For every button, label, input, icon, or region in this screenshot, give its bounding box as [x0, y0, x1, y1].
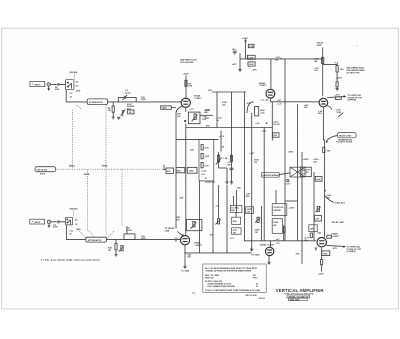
V495B plate lead	[270, 241, 272, 247]
right rail from V496A down	[323, 107, 324, 238]
to delay note + arrow	[165, 227, 176, 232]
svg-text:RANGE: RANGE	[273, 209, 281, 212]
svg-text:TERMINATION: TERMINATION	[338, 138, 353, 141]
svg-text:10K: 10K	[327, 150, 331, 152]
horizontal bus y127.5	[186, 127, 272, 129]
node J2 grid	[115, 239, 116, 240]
cathode curve to left rail	[176, 106, 182, 113]
svg-text:2W: 2W	[314, 61, 317, 63]
probe adj label	[127, 104, 135, 110]
svg-text:1.2K: 1.2K	[313, 161, 318, 163]
rail x302	[301, 152, 303, 264]
svg-text:12K: 12K	[317, 233, 321, 235]
ground below pot	[225, 168, 228, 184]
wire attenuator to grid V494A	[108, 101, 181, 103]
ground branch	[336, 88, 339, 90]
svg-text:18K: 18K	[310, 228, 314, 230]
ground network	[117, 117, 120, 119]
svg-text:AC: AC	[75, 218, 78, 221]
gain adj leader curve	[325, 196, 334, 203]
wire J1 to C1	[50, 83, 56, 85]
node grid junction	[113, 101, 114, 102]
svg-text:100K: 100K	[205, 110, 210, 112]
pot x258	[255, 217, 260, 222]
svg-text:+225V: +225V	[242, 38, 249, 40]
resistor box R16 100K	[187, 167, 197, 173]
volts/cm switch box	[35, 167, 56, 172]
DC BAL box R7	[161, 106, 172, 110]
heater crossed box	[290, 167, 305, 177]
trimmer pot lower	[119, 246, 124, 252]
capacitor C1	[58, 83, 66, 86]
rail x244.5	[244, 92, 246, 241]
resistor box 120K lower	[248, 62, 255, 66]
ground J2	[48, 224, 50, 228]
branch corner arrow	[335, 62, 338, 65]
V495B cathode	[268, 256, 270, 262]
svg-text:DELAY LINE: DELAY LINE	[339, 134, 352, 137]
resistor 100K vertical box	[255, 107, 266, 116]
svg-text:AT TEST PTS.: AT TEST PTS.	[346, 72, 360, 75]
svg-text:1M: 1M	[129, 112, 132, 114]
rail x272.3 upper	[271, 102, 273, 141]
third box lower center	[232, 228, 241, 235]
switch SW8B box	[65, 217, 72, 225]
svg-text:ATTENUATOR: ATTENUATOR	[89, 101, 103, 104]
capacitor C8	[232, 49, 237, 55]
box lower right 2	[272, 219, 282, 234]
svg-text:SW8B: SW8B	[102, 165, 108, 167]
bottom bus y253	[185, 252, 252, 254]
R30 labels	[314, 58, 319, 72]
ground arrow x251.7	[250, 249, 253, 251]
rail x297.5	[297, 104, 299, 241]
svg-text:12K: 12K	[304, 240, 308, 242]
cathode arc 47K	[247, 102, 254, 113]
resistor box 120K upper	[247, 55, 255, 59]
svg-text:10K: 10K	[340, 69, 344, 71]
rail below tall box right	[212, 181, 214, 253]
network labels lower	[126, 227, 133, 231]
resistor to gnd branch	[336, 72, 338, 88]
delay line feed rail	[322, 47, 324, 95]
V496A lower label	[318, 111, 323, 115]
attenuator B box	[86, 237, 107, 242]
notes text	[205, 267, 261, 292]
svg-text:100K: 100K	[273, 222, 278, 224]
delay line top label	[317, 41, 324, 46]
heater wiring label box	[261, 172, 279, 177]
svg-text:120K: 120K	[204, 156, 209, 158]
+225V top feed arrow	[245, 40, 247, 59]
wire SW8A down to attenuator	[66, 90, 87, 102]
rail x236.6 mid	[236, 190, 238, 212]
svg-text:1W: 1W	[255, 232, 258, 234]
output arrow upper	[327, 96, 345, 98]
compensation trimmer C3 bypass	[118, 95, 136, 102]
svg-text:27K: 27K	[315, 218, 319, 220]
svg-text:+225V: +225V	[183, 73, 190, 75]
svg-text:GND: GND	[76, 91, 81, 93]
heater connect wire	[279, 173, 290, 175]
dashed gang x106	[105, 105, 107, 237]
rail x285	[284, 59, 286, 241]
wire J2 to C11	[51, 221, 57, 223]
svg-text:AC: AC	[76, 80, 79, 83]
title box 1	[287, 295, 310, 298]
tube V495A	[266, 89, 275, 98]
labels right mid	[313, 159, 320, 164]
ground at J1	[48, 86, 50, 90]
resistor box 47K low	[273, 133, 279, 137]
resistor R30 on feed	[322, 57, 324, 63]
gain adj label	[202, 109, 209, 121]
V494A cathode lead	[185, 107, 187, 112]
svg-text:47K: 47K	[296, 253, 300, 256]
svg-text:310-52: 310-52	[258, 298, 265, 300]
svg-text:GND: GND	[76, 229, 81, 231]
svg-text:470K: 470K	[288, 151, 293, 154]
rail x221 lower	[220, 131, 222, 152]
V496B label	[331, 233, 340, 238]
resistor on x230.5	[230, 155, 232, 161]
svg-text:TYPE 310 MOD 50B OSCILLOSCOPE: TYPE 310 MOD 50B OSCILLOSCOPE	[41, 258, 100, 262]
svg-text:47K: 47K	[253, 69, 257, 72]
capacitor C11	[58, 220, 66, 223]
svg-text:47K: 47K	[233, 220, 237, 223]
svg-text:INPUT: INPUT	[35, 84, 42, 86]
svg-text:LINE: LINE	[317, 45, 322, 47]
svg-text:4W: 4W	[275, 58, 278, 61]
C1 value label	[55, 87, 60, 91]
svg-text:FOR VALUES: FOR VALUES	[180, 61, 194, 64]
ground x230.5	[230, 182, 233, 184]
R4 value label	[108, 107, 111, 112]
svg-text:2W: 2W	[273, 225, 276, 227]
horizontal bus y139.4	[176, 138, 219, 140]
svg-text:PIN CONNECTIONS SHOWN: PIN CONNECTIONS SHOWN	[207, 286, 235, 288]
svg-text:4.7K: 4.7K	[233, 229, 238, 232]
svg-text:120K: 120K	[249, 64, 254, 66]
SW8A contacts	[67, 82, 71, 89]
100K below output	[322, 251, 330, 256]
svg-text:2.2K: 2.2K	[249, 46, 254, 48]
heater pilot circle	[287, 180, 289, 182]
delay line callout box	[338, 133, 357, 142]
junction dot right rail	[324, 190, 326, 192]
tall network box	[199, 140, 214, 181]
resistor 10K branch	[336, 66, 344, 72]
svg-text:Triggering: Triggering	[205, 181, 216, 184]
box above V494B	[187, 220, 202, 231]
resistor 1M lower	[115, 240, 117, 255]
diag arrow lower	[177, 231, 183, 236]
wire attenuator B to V494B	[107, 239, 182, 241]
grid stopper label 7.5K	[141, 97, 146, 101]
SW8B contacts	[67, 219, 71, 224]
47K labels left lower	[176, 216, 180, 221]
lower center box 2	[232, 217, 241, 224]
svg-text:1.2K: 1.2K	[223, 158, 228, 160]
svg-text:GAIN ADJ.: GAIN ADJ.	[335, 203, 346, 205]
cathode pot arrow	[338, 113, 343, 117]
resistor below output	[321, 248, 323, 272]
output tube V496A	[319, 98, 328, 107]
svg-text:4.5-25: 4.5-25	[125, 92, 132, 95]
1M lower labels	[108, 247, 113, 252]
dashed gang x72.5	[72, 110, 74, 170]
note text top	[180, 59, 197, 64]
box stack right 2	[309, 225, 317, 232]
svg-text:100K: 100K	[162, 108, 167, 110]
wire SW8B to attenuator B	[66, 225, 86, 240]
svg-text:LINE: LINE	[165, 230, 170, 232]
ground 1M lower	[115, 255, 118, 257]
SW8B labels	[75, 218, 81, 230]
V496A bias labels	[304, 104, 309, 109]
connector circle	[47, 83, 50, 86]
svg-text:+1.4V: +1.4V	[201, 170, 207, 173]
input connector J1 box	[30, 81, 45, 86]
network box lower	[124, 226, 135, 239]
CRT note lower	[333, 245, 362, 253]
svg-text:DELAY LINE: DELAY LINE	[332, 221, 345, 224]
wire labels +4.7	[277, 99, 282, 106]
svg-text:4.5-25: 4.5-25	[126, 229, 133, 232]
svg-text:+1.5 +65: +1.5 +65	[260, 99, 269, 101]
CRT note upper	[334, 93, 363, 101]
svg-text:+4.7V: +4.7V	[334, 93, 340, 96]
svg-text:1/2W: 1/2W	[336, 112, 341, 114]
junction tick at bus	[280, 58, 282, 59]
svg-text:47K: 47K	[205, 117, 209, 120]
rail x227 lower	[226, 185, 228, 253]
svg-text:600V: 600V	[55, 89, 60, 91]
svg-text:1W: 1W	[254, 162, 257, 164]
plate resistor label	[188, 83, 192, 87]
svg-text:6.3V: 6.3V	[286, 184, 291, 186]
svg-text:VERTICAL AMPLIFIER: VERTICAL AMPLIFIER	[276, 288, 325, 293]
resistor R22 2.2K	[248, 44, 254, 48]
box 27K right	[314, 215, 321, 221]
svg-text:276 1R: 276 1R	[273, 124, 280, 126]
svg-text:AC: AC	[306, 171, 309, 174]
svg-text:12K: 12K	[188, 86, 192, 88]
svg-text:22K: 22K	[180, 198, 184, 200]
tall box entry label	[201, 170, 208, 180]
rail x276 short	[275, 190, 277, 204]
svg-text:REV. B 4-58: REV. B 4-58	[245, 294, 257, 297]
svg-text:47K: 47K	[273, 134, 277, 137]
C11 labels	[53, 225, 58, 229]
gang dashed bus	[56, 168, 162, 170]
dashed diag to atten B	[79, 230, 94, 239]
svg-text:47K: 47K	[247, 102, 251, 105]
feedback box left small	[166, 168, 174, 173]
svg-text:4.7K: 4.7K	[204, 146, 209, 149]
V495A label	[259, 82, 268, 87]
box 100K right	[315, 176, 322, 181]
svg-text:TO V494: TO V494	[251, 254, 260, 257]
svg-text:SW8B: SW8B	[84, 174, 90, 176]
divider leg to ground	[239, 53, 241, 69]
label +1.05V	[217, 117, 223, 121]
left long rail	[175, 113, 177, 228]
rev text below notes	[245, 294, 265, 300]
svg-text:1/2W: 1/2W	[141, 99, 146, 101]
small box under +4.7V	[335, 97, 341, 100]
svg-text:DC: DC	[75, 224, 78, 226]
lower center box DC shift	[230, 205, 242, 212]
svg-text:+100V: +100V	[318, 274, 325, 276]
resistor right stack	[310, 233, 312, 238]
dashed diag atten B right	[107, 230, 115, 238]
switch SW8A box	[66, 80, 74, 90]
tall box entry R19	[201, 162, 209, 167]
cathode labels lower	[187, 254, 192, 258]
lower pot mid	[215, 219, 220, 225]
resistor R5 1M box	[128, 110, 134, 114]
svg-text:PLATE LOAD 47K: PLATE LOAD 47K	[205, 280, 223, 283]
label +45V	[222, 101, 228, 106]
output arrow lower	[326, 245, 345, 247]
svg-text:1.2K: 1.2K	[190, 150, 195, 152]
delay callout arrow	[326, 135, 338, 142]
grid side labels	[175, 238, 178, 243]
cathode node dot	[184, 120, 186, 122]
svg-text:POSITION: POSITION	[273, 207, 283, 209]
svg-text:+100V: +100V	[288, 208, 295, 210]
svg-text:(SW 8A): (SW 8A)	[69, 71, 77, 74]
attenuator A box	[87, 99, 107, 105]
wire gain box to rail	[200, 114, 213, 116]
dashed gang diag upper	[76, 105, 82, 109]
gain network box	[188, 112, 200, 124]
dashed gang x122	[121, 169, 123, 226]
trimmer C4	[121, 109, 126, 116]
svg-text:ATTENUATOR: ATTENUATOR	[88, 239, 102, 242]
svg-text:22K: 22K	[247, 212, 251, 214]
svg-text:1.4K: 1.4K	[204, 164, 209, 167]
rail x230.5 with ground	[231, 92, 233, 182]
svg-text:1W: 1W	[233, 232, 236, 234]
junction dot	[266, 122, 268, 124]
screen bus y58.9	[240, 58, 323, 60]
svg-text:1M: 1M	[108, 110, 111, 112]
svg-text:TO ALL COMPONENTS AND TUBE TER: TO ALL COMPONENTS AND TUBE TERMINALS OF …	[205, 289, 261, 292]
left rail label	[177, 113, 181, 118]
svg-text:INPUT: INPUT	[34, 222, 41, 224]
svg-text:22K: 22K	[227, 165, 231, 167]
V494A label	[194, 95, 203, 100]
cathode 4.7K label	[336, 108, 341, 113]
svg-text:1W: 1W	[176, 219, 179, 221]
rail x236.6 short	[234, 196, 237, 217]
svg-text:100K: 100K	[316, 179, 321, 181]
svg-text:50K: 50K	[231, 210, 235, 212]
V495A screen lead	[270, 59, 272, 90]
svg-text:SW8A: SW8A	[69, 164, 75, 167]
heater box label	[306, 170, 311, 174]
svg-text:DC BAL: DC BAL	[231, 207, 239, 210]
rail x217	[216, 92, 218, 128]
svg-text:100K: 100K	[189, 170, 194, 172]
svg-text:HEATER WIRING: HEATER WIRING	[263, 174, 280, 177]
+225V supply to V494A plate	[185, 75, 187, 98]
rail x261.5	[261, 206, 263, 241]
pot right	[316, 206, 321, 211]
box mid lower 245	[246, 207, 254, 214]
tube V494B	[180, 236, 189, 245]
svg-text:100K: 100K	[323, 253, 328, 255]
V496B cathode ground arrow	[315, 248, 317, 250]
ground R4	[112, 117, 115, 119]
input connector J2 box	[30, 219, 45, 224]
V494B cathode lead	[184, 245, 186, 266]
svg-text:4.7K: 4.7K	[208, 89, 213, 92]
V496B bias label	[304, 236, 310, 241]
rail x264.2	[263, 128, 265, 241]
cathode cap labels below SW8A	[70, 93, 73, 99]
svg-text:4.7K: 4.7K	[333, 247, 338, 250]
DC shift labels	[227, 161, 233, 166]
tube V494A	[181, 98, 190, 107]
ground divider	[238, 70, 241, 72]
h bus y92	[212, 91, 246, 93]
center rail below V494A	[185, 124, 187, 236]
left labels 100K	[205, 110, 210, 121]
labels near junction	[255, 121, 280, 125]
svg-text:(SW 8B): (SW 8B)	[70, 208, 78, 210]
svg-text:SW 8: SW 8	[40, 174, 46, 176]
tube V495B	[265, 247, 273, 255]
termination lower	[183, 266, 186, 268]
resistor 10K on right rail	[323, 147, 331, 152]
svg-text:+225V: +225V	[303, 159, 310, 161]
svg-text:TO V490: TO V490	[181, 269, 190, 272]
grid stopper lower 7.5K	[141, 236, 146, 240]
svg-text:DC: DC	[76, 86, 79, 88]
svg-text:(LOWER): (LOWER)	[347, 251, 356, 253]
V496A cathode lead curve	[327, 106, 332, 110]
capacitor on x230.5	[230, 168, 234, 169]
C3 value label	[125, 90, 132, 94]
timing note text	[346, 67, 365, 75]
svg-text:VOLTS/CM: VOLTS/CM	[37, 169, 48, 171]
label pair rail 244	[246, 192, 251, 197]
gang bus end mark	[163, 165, 166, 170]
rail x251.7	[251, 113, 253, 250]
wire DC BAL box to cathode rail	[171, 107, 176, 109]
svg-text:1W: 1W	[177, 116, 180, 118]
svg-text:1/2W: 1/2W	[141, 238, 146, 240]
connector circle J2	[47, 220, 50, 223]
svg-text:22K: 22K	[237, 188, 241, 190]
svg-text:1M: 1M	[108, 250, 111, 252]
h wire y201 right	[285, 200, 298, 202]
V495B cathode gnd	[267, 262, 270, 264]
svg-text:+47V: +47V	[232, 63, 237, 66]
V494B label	[194, 241, 203, 246]
resistor box R15	[176, 168, 185, 173]
svg-text:600V: 600V	[53, 227, 58, 229]
SW8A position labels	[76, 80, 81, 92]
svg-text:12K: 12K	[304, 107, 308, 109]
+147 label	[275, 56, 280, 62]
rail x218.6 lower	[218, 185, 220, 219]
svg-text:47K: 47K	[167, 170, 171, 173]
junction dot at bus	[184, 252, 186, 254]
